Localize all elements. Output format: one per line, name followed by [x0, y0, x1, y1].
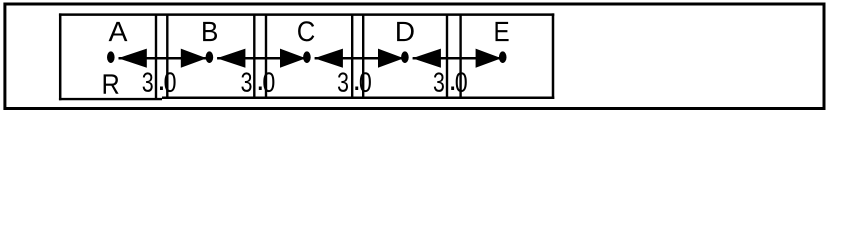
divider wall right of gap C-D: [362, 15, 364, 98]
node B dot: [206, 51, 214, 63]
inner box top edge: [59, 13, 554, 16]
wire C-D shaft: [315, 57, 404, 60]
edge C-D weight label 3.0: [338, 72, 371, 92]
divider wall left of gap B-C: [253, 15, 255, 98]
inner box left edge: [59, 13, 62, 100]
arrowhead toward B: [217, 49, 246, 68]
edge A-B weight label 3.0: [143, 72, 176, 92]
node A label: [109, 22, 128, 41]
wire B-C shaft: [217, 57, 306, 60]
node E dot: [499, 51, 507, 63]
divider wall left of gap C-D: [351, 15, 353, 98]
arrowhead toward E: [476, 49, 502, 68]
divider wall right of gap A-B: [166, 15, 168, 98]
node E label: [496, 22, 509, 41]
divider wall right of gap B-C: [265, 15, 267, 98]
arrowhead toward C: [314, 49, 343, 68]
node C label: [298, 21, 314, 41]
arrowhead toward C: [280, 49, 306, 68]
node A dot: [107, 51, 115, 63]
arrowhead toward B: [181, 49, 207, 68]
arrowhead toward D: [378, 49, 404, 68]
node D label: [397, 22, 414, 41]
arrowhead toward D: [412, 49, 441, 68]
edge D-E weight label 3.0: [434, 72, 467, 92]
arrowhead toward A: [118, 49, 147, 68]
inner box right edge: [552, 13, 555, 99]
node B label: [203, 22, 217, 41]
edge B-C weight label 3.0: [241, 72, 274, 92]
inner box bottom edge under boxes B-E: [162, 97, 554, 99]
node C dot: [303, 51, 311, 63]
divider wall right of gap D-E: [459, 15, 461, 98]
divider wall left of gap A-B: [155, 15, 157, 100]
inner box bottom edge under box A (slightly lower): [59, 98, 162, 100]
node R label under A: [104, 74, 119, 93]
node D dot: [401, 51, 409, 63]
wire D-E shaft: [413, 57, 502, 60]
wire A-B shaft: [119, 57, 207, 60]
divider wall left of gap D-E: [446, 15, 448, 98]
outer frame: [5, 4, 824, 109]
